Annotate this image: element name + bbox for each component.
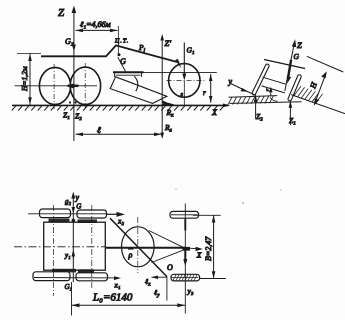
svg-text:G: G: [294, 52, 300, 61]
svg-text:X: X: [196, 251, 202, 260]
svg-text:Z₁: Z₁: [63, 111, 70, 120]
svg-text:y₃: y₃: [187, 287, 194, 296]
svg-text:y: y: [228, 77, 233, 86]
svg-text:O: O: [167, 263, 173, 272]
svg-text:r: r: [203, 89, 206, 97]
svg-text:G: G: [120, 57, 126, 66]
svg-text:L₀=6140: L₀=6140: [92, 292, 133, 304]
svg-text:Z: Z: [297, 40, 302, 50]
svg-text:G₁: G₁: [65, 283, 73, 291]
svg-text:Z: Z: [58, 7, 65, 19]
svg-text:Ц.Т.: Ц.Т.: [114, 39, 129, 45]
svg-text:ρ: ρ: [128, 251, 133, 260]
svg-text:G₁: G₁: [187, 46, 195, 55]
svg-text:G: G: [76, 203, 81, 211]
svg-text:y: y: [75, 193, 80, 202]
svg-text:x₂: x₂: [117, 217, 124, 226]
svg-text:g₂: g₂: [65, 198, 72, 206]
svg-text:B=2,47: B=2,47: [204, 236, 213, 261]
svg-text:y₁: y₁: [64, 252, 71, 260]
svg-text:Z′: Z′: [165, 38, 172, 48]
svg-text:ℓ₁=4,66м: ℓ₁=4,66м: [80, 20, 111, 29]
svg-text:ℓ: ℓ: [97, 125, 101, 135]
svg-text:H=1,2м: H=1,2м: [20, 66, 29, 92]
svg-text:Z₁: Z₁: [289, 116, 296, 125]
svg-text:x₁: x₁: [114, 281, 121, 290]
svg-text:Z₂: Z₂: [75, 112, 82, 121]
svg-text:Z₂: Z₂: [256, 112, 263, 121]
